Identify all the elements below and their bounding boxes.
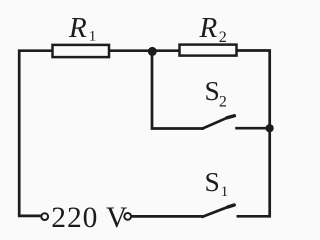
svg-text:R: R <box>199 12 218 44</box>
svg-text:1: 1 <box>221 184 229 200</box>
svg-text:2: 2 <box>219 94 227 111</box>
svg-text:1: 1 <box>89 28 97 44</box>
svg-text:220 V: 220 V <box>51 202 128 233</box>
svg-text:S: S <box>205 75 220 106</box>
svg-text:2: 2 <box>219 29 227 46</box>
svg-text:S: S <box>205 166 220 197</box>
svg-text:R: R <box>68 12 87 44</box>
